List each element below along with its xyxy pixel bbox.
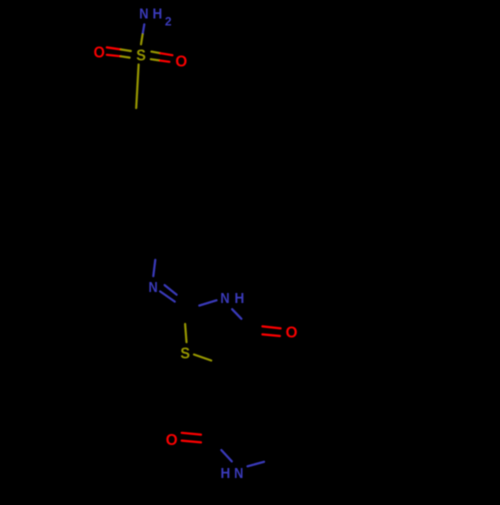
bond NH2-S (N half) xyxy=(143,24,145,34)
bond CH2-N imine (N half) xyxy=(153,260,155,276)
bond S=O right lower (S half) xyxy=(151,59,160,60)
svg-text:O: O xyxy=(166,432,178,449)
bond S=O left upper (O half) xyxy=(107,47,121,49)
svg-text:H: H xyxy=(235,291,245,308)
bond S1-C2 ring (S half) xyxy=(185,324,186,342)
svg-text:N: N xyxy=(234,464,243,481)
bond S=O left lower (O half) xyxy=(107,55,121,57)
svg-text:N: N xyxy=(220,289,229,306)
svg-text:O: O xyxy=(175,53,187,70)
bond S=O right lower (O half) xyxy=(160,61,170,62)
svg-text:S: S xyxy=(180,345,190,363)
svg-text:H: H xyxy=(221,465,231,482)
svg-text:O: O xyxy=(286,324,298,341)
bond N1'-C2' (N half) xyxy=(248,462,265,467)
svg-text:S: S xyxy=(136,47,146,65)
svg-text:N: N xyxy=(139,4,148,21)
bond C4=O upper (O half) xyxy=(262,326,280,328)
bond NH2-S (S half) xyxy=(141,34,143,44)
bond N3-C4 (N half) xyxy=(232,309,241,319)
svg-text:O: O xyxy=(94,44,105,62)
bond N=C2 lower (N half) xyxy=(160,291,175,301)
bond N=C2 upper (N half) xyxy=(165,285,177,295)
bond S=O right upper (S half) xyxy=(151,52,160,54)
bond S=O left upper (S half) xyxy=(121,50,131,52)
bond C7a-N1' (N half) xyxy=(221,450,232,461)
bond S-C(aryl) (S half) xyxy=(136,65,138,109)
bond C2-N3 (N half) xyxy=(199,300,216,305)
svg-text:2: 2 xyxy=(165,15,172,29)
bond S1-C5 ring (S half) xyxy=(194,355,211,361)
svg-text:H: H xyxy=(153,6,163,23)
svg-text:N: N xyxy=(149,278,158,295)
bond S=O right upper (O half) xyxy=(160,53,172,55)
bond C4=O lower (O half) xyxy=(262,334,280,336)
bond C=O oxindole lower (O half) xyxy=(182,441,201,443)
bond S=O left lower (S half) xyxy=(121,56,130,57)
bond C=O oxindole upper (O half) xyxy=(182,433,201,435)
